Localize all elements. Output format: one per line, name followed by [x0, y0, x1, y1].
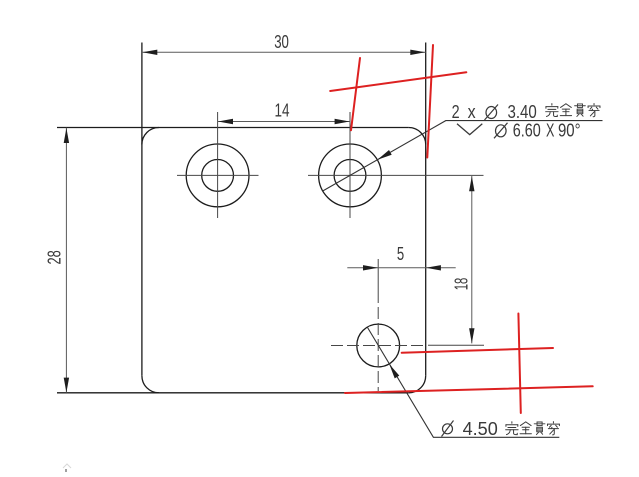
svg-text:18: 18 — [451, 278, 471, 291]
svg-text:4.50: 4.50 — [463, 419, 498, 439]
svg-text:5: 5 — [397, 244, 404, 264]
svg-text:2: 2 — [452, 102, 460, 122]
svg-text:30: 30 — [274, 32, 289, 52]
svg-text:90°: 90° — [558, 120, 581, 140]
svg-text:X: X — [546, 120, 554, 140]
svg-text:6.60: 6.60 — [513, 120, 541, 140]
svg-text:14: 14 — [275, 100, 290, 120]
svg-text:x: x — [468, 102, 476, 122]
svg-text:3.40: 3.40 — [508, 102, 537, 122]
svg-text:28: 28 — [45, 250, 65, 264]
